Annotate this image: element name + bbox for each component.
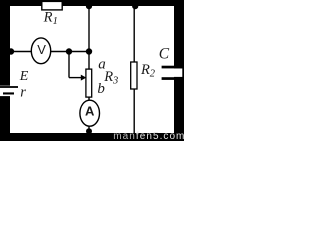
border band right (with right wire merged) [174,0,184,141]
wire R3 branch top [88,5,90,70]
svg-text:2: 2 [150,69,156,80]
svg-text:V: V [37,42,46,57]
svg-text:manfen5.com: manfen5.com [113,131,184,141]
label R1 [43,10,58,28]
rheostat wiper wire horizontal [69,77,82,79]
junction dot ammeter bottom [86,128,92,134]
junction dot top of R3 branch [86,3,92,9]
svg-text:1: 1 [53,16,58,27]
junction dot wiper tap [66,48,72,54]
wire top (merged with top border band) [8,4,176,6]
resistor R2 body [131,62,137,89]
label R3 [103,69,118,87]
wire voltmeter branch [9,51,89,53]
capacitor C : white punch over right band [162,68,183,77]
svg-text:E: E [19,69,29,84]
svg-text:C: C [159,46,170,63]
capacitor plate bottom [162,77,184,80]
svg-text:R: R [43,10,53,26]
capacitor plate top [162,66,184,69]
battery E,r : white punch over left band [0,86,18,96]
border band bottom (with bottom wire merged) [0,133,184,141]
border band top [0,0,184,6]
svg-text:b: b [97,81,105,97]
label R2 [140,62,156,80]
battery short plate [3,92,14,94]
resistor R1 [42,1,62,10]
wiper arrowhead [81,75,87,81]
svg-text:3: 3 [112,76,118,87]
svg-text:r: r [20,84,26,100]
wire R3 to ammeter [88,97,90,101]
wire R2 branch top [133,5,135,63]
junction dot left end of voltmeter branch [8,48,14,54]
border band left (with left wire merged) [0,0,10,141]
wire R2 branch bottom [133,89,135,134]
rheostat wiper wire vertical [68,52,70,78]
svg-text:A: A [85,103,95,118]
junction dot top of R2 branch [132,3,138,9]
junction dot voltmeter-R3 crossing [86,48,92,54]
rheostat R3 body [86,69,92,97]
svg-text:R: R [140,62,150,78]
wire ammeter to bottom [88,126,90,134]
battery long plate [0,86,18,88]
ammeter A [80,100,100,126]
voltmeter V [31,38,50,64]
